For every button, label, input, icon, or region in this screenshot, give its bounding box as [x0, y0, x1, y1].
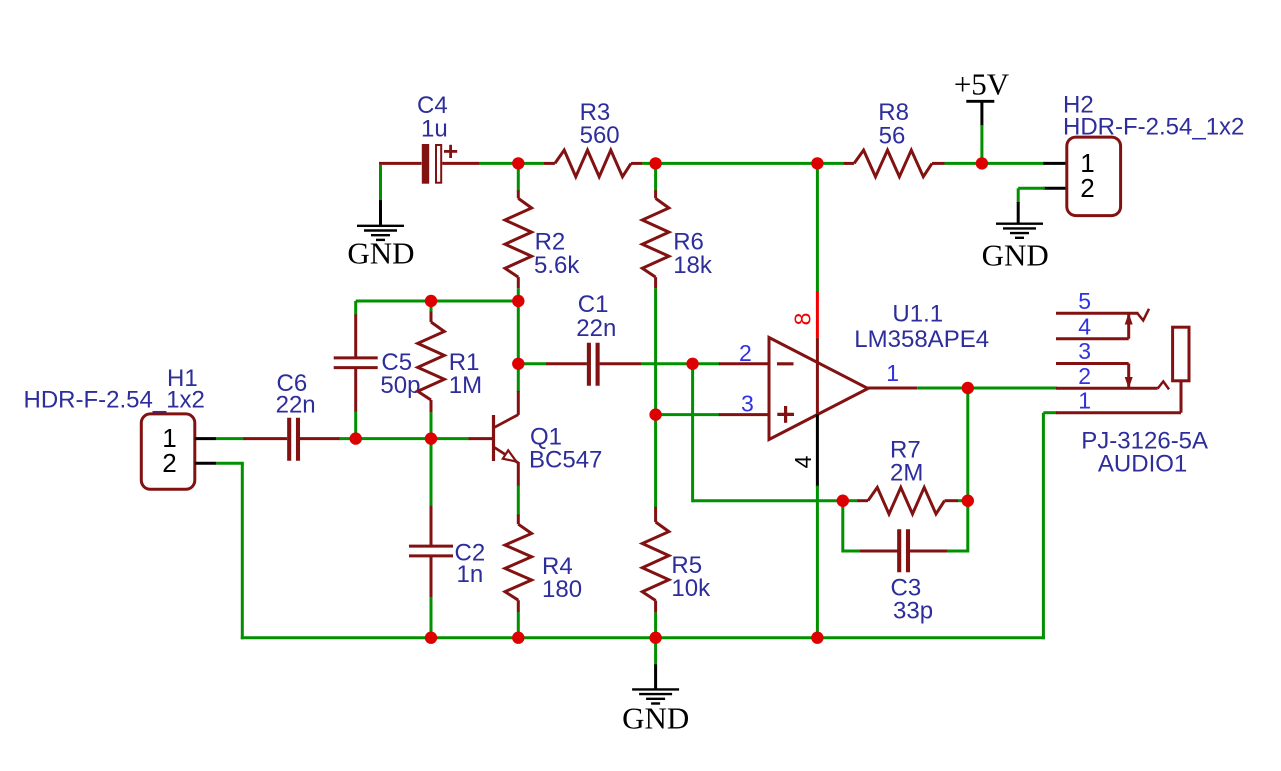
svg-text:AUDIO1: AUDIO1	[1098, 451, 1187, 478]
jack pin 3	[1056, 362, 1129, 365]
wire: feedback from pin2 node down and right to R7 left (green)	[691, 364, 694, 502]
svg-text:5: 5	[1078, 288, 1091, 314]
wire: pin3 node to op-amp non-inverting input	[656, 413, 720, 416]
svg-text:BC547: BC547	[529, 447, 602, 474]
svg-text:HDR-F-2.54_1x2: HDR-F-2.54_1x2	[1063, 114, 1244, 141]
capacitor C3 33p	[841, 501, 844, 553]
svg-text:2: 2	[1078, 363, 1091, 389]
resistor R3 560	[517, 162, 544, 165]
wire: R6 bottom through pin3 node down to R5 (green)	[654, 288, 657, 508]
svg-text:8: 8	[790, 313, 816, 326]
wire: H1 pin2 down and bottom ground rail (green)	[216, 462, 244, 465]
svg-text:560: 560	[580, 122, 620, 149]
wire: output node down to R7 right (green)	[966, 388, 969, 502]
ground symbol (left)	[357, 225, 404, 227]
header H2 HDR-F-2.54_1x2	[1043, 162, 1066, 165]
jack pin 5	[1056, 312, 1139, 315]
svg-text:3: 3	[741, 391, 754, 417]
svg-text:GND: GND	[622, 701, 689, 736]
svg-text:3: 3	[1078, 338, 1091, 364]
wire: H2 pin2 to GND (green then black)	[1017, 188, 1020, 203]
svg-text:2M: 2M	[890, 459, 923, 486]
capacitor C4 1u (polarized)	[379, 162, 422, 165]
svg-text:LM358APE4: LM358APE4	[854, 326, 989, 353]
op-amp U1.1 LM358APE4	[769, 338, 868, 440]
resistor R2 5.6k	[517, 163, 520, 191]
wire: H1 pin1 to C6 (green)	[216, 437, 244, 440]
resistor R1 1M	[430, 301, 433, 313]
wire: bottom rail up to audio jack pin 1 (green)	[1042, 413, 1045, 640]
ground symbol (top right)	[996, 222, 1043, 224]
svg-text:10k: 10k	[671, 575, 711, 602]
svg-text:GND: GND	[347, 236, 414, 271]
wire: C4 to node at R2 top (green)	[480, 162, 520, 165]
svg-text:4: 4	[1078, 313, 1091, 339]
svg-text:22n: 22n	[576, 315, 616, 342]
svg-text:1: 1	[1078, 387, 1091, 413]
op-amp pin 4 (black) to bottom rail	[816, 415, 819, 487]
svg-text:50p: 50p	[380, 372, 420, 399]
power +5V	[980, 101, 983, 126]
resistor R5 10k	[654, 507, 657, 522]
svg-text:1n: 1n	[457, 561, 484, 588]
op-amp pin 8 power wire (red)	[816, 163, 819, 292]
jack pin 4 with switch arrow to pin 5	[1056, 337, 1129, 340]
wire: C6 to Q1 base (green, through node A and node B)	[339, 437, 469, 440]
jack pin 2 with switch arrow from pin 3	[1056, 387, 1158, 390]
svg-text:U1.1: U1.1	[892, 301, 943, 328]
wire: op-amp output pin 1	[868, 387, 917, 390]
svg-text:+5V: +5V	[954, 67, 1010, 102]
svg-text:4: 4	[790, 455, 816, 468]
wire: C4 to left GND (green then black)	[379, 165, 382, 201]
svg-text:1M: 1M	[449, 372, 482, 399]
capacitor C1 22n	[518, 362, 547, 365]
svg-text:C1: C1	[578, 291, 609, 318]
svg-text:33p: 33p	[893, 598, 933, 625]
svg-text:2: 2	[739, 340, 752, 366]
wire: bottom rail to bottom GND (black stem)	[654, 638, 657, 666]
svg-text:56: 56	[879, 123, 906, 150]
wire: Q1 emitter to R4 (green)	[517, 485, 520, 515]
wire: pin2 node to op-amp inverting input	[693, 362, 720, 365]
svg-text:GND: GND	[982, 237, 1049, 272]
resistor R7 2M	[843, 499, 859, 502]
capacitor C6 22n	[243, 437, 287, 440]
svg-text:2: 2	[162, 448, 176, 478]
capacitor C5 50p	[354, 301, 357, 316]
svg-text:HDR-F-2.54_1x2: HDR-F-2.54_1x2	[24, 387, 205, 414]
svg-text:180: 180	[542, 576, 582, 603]
wire: C1 to op-amp pin2 node (green)	[642, 362, 694, 365]
resistor R6 18k	[654, 163, 657, 191]
capacitor C2 1n	[430, 439, 433, 507]
svg-text:1u: 1u	[421, 115, 448, 142]
header H1 HDR-F-2.54_1x2	[141, 414, 195, 489]
svg-text:5.6k: 5.6k	[534, 252, 580, 279]
resistor R4 180	[517, 515, 520, 525]
resistor R8 56	[843, 162, 854, 165]
wire: mid rail (green) C5 top to R2 bottom	[356, 300, 519, 303]
transistor Q1 BC547	[517, 301, 520, 392]
ground symbol (bottom)	[632, 688, 679, 690]
svg-text:22n: 22n	[276, 391, 316, 418]
svg-text:18k: 18k	[673, 252, 713, 279]
svg-text:1: 1	[886, 360, 899, 386]
svg-text:2: 2	[1080, 173, 1094, 203]
jack pin 1 and sleeve	[1056, 411, 1181, 414]
wire: top rail R3 to R8 (green)	[642, 162, 843, 165]
junction nodes (red dots)	[512, 157, 524, 169]
